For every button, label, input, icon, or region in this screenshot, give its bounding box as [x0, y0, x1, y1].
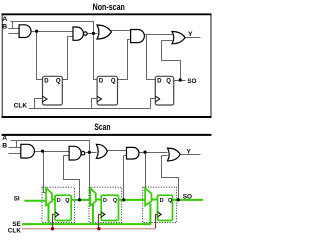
- mux M3: [145, 188, 151, 206]
- svg-text:B: B: [2, 24, 7, 31]
- wire NAND out to OR1 (scan): [86, 152, 97, 154]
- junction node at OR1 input: [92, 32, 95, 35]
- wire Q2 riser to AND4 bottom input (scan): [124, 156, 127, 200]
- wire AND4 output down to FF3 D: [147, 35, 156, 80]
- wire Y output: [185, 37, 201, 39]
- junction node at OR1 input (scan): [88, 151, 91, 154]
- junction node Q1: [78, 198, 81, 201]
- wire node to FF2 D: [94, 34, 98, 80]
- wire CLK bus: [29, 108, 151, 110]
- wire Q1 to MUX2: [71, 199, 90, 201]
- wire Q2 to MUX3: [119, 199, 146, 201]
- green scan wires: [22, 200, 203, 225]
- wire AND1 out to NAND top input (scan): [35, 151, 70, 153]
- wire AND4 out to OR5 top input (scan): [139, 152, 168, 154]
- scan box top border: [2, 134, 212, 136]
- NAND gate G2: [73, 27, 87, 40]
- wire SE branch MUX3: [149, 204, 151, 225]
- wire node down to MUX2 top input (scan): [90, 153, 91, 192]
- svg-text:D: D: [99, 78, 104, 84]
- svg-text:Q: Q: [111, 78, 116, 84]
- OR gate G5 (Y output): [172, 32, 185, 44]
- scan flip-flop FF1: [55, 195, 71, 220]
- svg-text:Y: Y: [188, 31, 193, 38]
- junction dot CLK FF2: [97, 227, 100, 230]
- svg-text:A: A: [2, 16, 7, 23]
- junction node after G1: [35, 30, 38, 33]
- svg-text:D: D: [160, 198, 164, 204]
- junction dot CLK FF1: [51, 227, 54, 230]
- CLK branch FF1 (scan): [53, 215, 55, 229]
- CLK bus (scan): [22, 228, 156, 230]
- scan cell 3 dashed box: [143, 187, 177, 223]
- wire A horizontal to OR1 input node: [11, 22, 94, 34]
- wire CLK branch FF2: [92, 99, 98, 109]
- wire Q3 to SO: [173, 199, 204, 201]
- mux M2: [90, 188, 96, 206]
- wire A jog (scan): [16, 141, 18, 148]
- wire A jog down to AND1 top input: [12, 22, 14, 29]
- wire CLK branch FF1: [35, 99, 43, 109]
- wire Q1 riser zigzag to NAND bottom input (scan): [64, 156, 80, 200]
- junction node Q3 / SO: [177, 198, 180, 201]
- svg-text:Q: Q: [113, 198, 117, 204]
- wire B (scan): [9, 147, 21, 149]
- wire AND4 output to OR3 top input: [145, 34, 173, 36]
- wire SE bus: [22, 223, 151, 225]
- wire OR1 out to AND4 (scan): [107, 150, 127, 152]
- svg-text:Q: Q: [65, 198, 69, 204]
- junction node FF3 Q / SO: [179, 78, 182, 81]
- wire NAND2 output to OR1: [88, 33, 98, 35]
- wire SI input: [24, 200, 46, 202]
- svg-text:SO: SO: [187, 78, 196, 85]
- wire MUX1 to FF1 D: [52, 199, 55, 201]
- wire AND1 output to NAND2 top input: [31, 31, 73, 33]
- wire node down to MUX1 top input (scan): [43, 152, 47, 193]
- wire MUX2 to FF2 D: [96, 199, 101, 201]
- junction node Q2: [122, 198, 125, 201]
- AND gate G4: [131, 30, 145, 43]
- wire Y output (scan): [180, 154, 201, 156]
- mux M1: [46, 188, 52, 206]
- flip-flop FF1: [43, 76, 63, 105]
- svg-text:Q: Q: [56, 78, 61, 84]
- CLK branch FF3 (scan): [156, 215, 158, 229]
- AND gate G1 (scan): [21, 144, 35, 158]
- wire AND1 lower input: [9, 33, 20, 35]
- svg-text:SO: SO: [183, 194, 192, 201]
- flip-flop FF2: [97, 76, 117, 105]
- svg-text:D: D: [44, 78, 49, 84]
- OR gate G3 (scan): [96, 144, 107, 158]
- wire CLK branch FF3: [151, 99, 156, 109]
- svg-text:D: D: [57, 198, 61, 204]
- wire B to AND1: [9, 28, 20, 30]
- scan flip-flop FF2: [101, 195, 118, 220]
- svg-text:D: D: [103, 198, 107, 204]
- CLK branch FF2 (scan): [99, 215, 102, 229]
- AND gate G4 (scan): [127, 147, 140, 159]
- junction node after G4 (scan): [143, 151, 146, 154]
- wire AND1 lower input (scan): [9, 153, 21, 155]
- wire FF2 Q up to AND4 bottom input: [118, 40, 131, 80]
- wire A (scan) to OR input node: [11, 141, 90, 153]
- svg-text:CLK: CLK: [14, 103, 28, 110]
- wire FF1 Q up to NAND2 bottom input: [63, 37, 73, 80]
- wire MUX3 to FF3 D: [152, 199, 158, 201]
- OR gate G3: [97, 25, 111, 39]
- scan cell 2 dashed box: [89, 187, 122, 223]
- wire node to FF1 D: [37, 32, 43, 80]
- svg-text:B: B: [2, 143, 7, 150]
- OR gate G5 (scan, Y output): [168, 148, 181, 161]
- svg-text:CLK: CLK: [8, 227, 22, 234]
- wire SE branch MUX2: [92, 204, 94, 225]
- scan cell 1 dashed box: [42, 187, 74, 223]
- non-scan box border: [2, 14, 212, 117]
- svg-text:Q: Q: [168, 198, 172, 204]
- wire node down to MUX3 top input (scan): [145, 153, 147, 191]
- wire Q3 zigzag to OR5 bottom input (scan): [162, 156, 179, 200]
- AND gate G1: [19, 25, 31, 38]
- NAND gate G2 (scan): [69, 146, 85, 160]
- wire SE branch MUX1: [48, 204, 50, 225]
- wire FF3 Q zigzag to OR3 bottom input: [162, 41, 181, 81]
- svg-text:Non-scan: Non-scan: [93, 2, 125, 12]
- wire FF3 Q to SO: [174, 80, 186, 82]
- svg-text:Q: Q: [166, 78, 171, 84]
- svg-text:D: D: [157, 78, 162, 84]
- junction node after G1 (scan): [41, 150, 44, 153]
- svg-text:SI: SI: [14, 196, 20, 203]
- scan flip-flop FF3: [158, 195, 173, 220]
- wire OR1 output to AND4: [111, 30, 131, 32]
- svg-text:Scan: Scan: [94, 122, 110, 132]
- svg-text:A: A: [2, 135, 7, 142]
- svg-text:Y: Y: [186, 149, 191, 156]
- flip-flop FF3: [155, 76, 173, 105]
